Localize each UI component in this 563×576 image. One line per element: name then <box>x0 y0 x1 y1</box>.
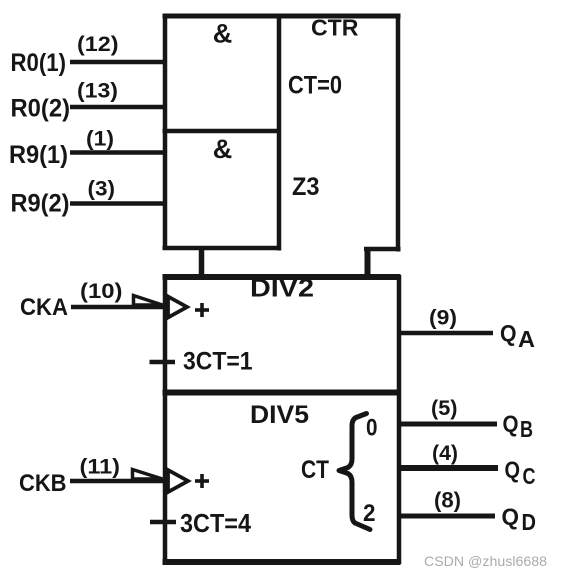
svg-text:Q: Q <box>503 411 519 437</box>
CT brace <box>339 414 370 530</box>
svg-text:3CT=1: 3CT=1 <box>183 348 253 376</box>
svg-text:(5): (5) <box>431 397 458 420</box>
svg-text:R9(1): R9(1) <box>9 141 68 169</box>
wire QC pin 4 <box>399 465 498 471</box>
svg-text:(3): (3) <box>88 178 116 201</box>
wire CKA pin 10 <box>71 305 166 310</box>
wire QB pin 5 <box>399 422 497 427</box>
wire R0(2) pin 13 <box>70 105 165 110</box>
dynamic input indicator CKA <box>168 297 187 318</box>
svg-text:CKA: CKA <box>20 294 68 321</box>
svg-text:A: A <box>518 326 535 352</box>
svg-text:&: & <box>213 134 233 164</box>
CT input tick 3CT=4 <box>150 520 176 525</box>
svg-text:(1): (1) <box>86 128 114 151</box>
counter block U1 outline CTR <box>163 14 401 252</box>
svg-text:(4): (4) <box>432 442 458 465</box>
svg-text:C: C <box>523 463 536 489</box>
wire R9(2) pin 3 <box>70 201 165 206</box>
dynamic input indicator CKB <box>168 470 188 492</box>
svg-text:2: 2 <box>363 500 376 527</box>
svg-text:(11): (11) <box>80 456 121 479</box>
svg-text:R9(2): R9(2) <box>11 190 70 218</box>
AND gate A1 box (common reset) <box>163 14 282 251</box>
flip-flop block DIV2/DIV5 outline <box>163 275 401 564</box>
svg-text:CT=0: CT=0 <box>288 72 342 100</box>
wire connector CTR to DIV2 left <box>199 248 205 278</box>
svg-text:DIV5: DIV5 <box>250 401 309 429</box>
wire connector CTR to DIV2 right <box>365 249 371 278</box>
svg-text:3CT=4: 3CT=4 <box>180 508 251 538</box>
polarity wedge CKB <box>133 470 163 480</box>
svg-text:R0(2): R0(2) <box>11 95 71 123</box>
wire QA pin 9 <box>399 331 493 336</box>
svg-text:Z3: Z3 <box>292 173 320 201</box>
svg-text:D: D <box>522 509 537 535</box>
svg-text:DIV2: DIV2 <box>250 275 314 303</box>
svg-text:CSDN @zhusl6688: CSDN @zhusl6688 <box>424 553 547 569</box>
svg-text:(10): (10) <box>80 280 123 303</box>
svg-text:CT: CT <box>301 456 329 484</box>
svg-text:B: B <box>520 416 533 442</box>
plus sign CKA <box>195 303 209 317</box>
svg-text:R0(1): R0(1) <box>11 49 67 77</box>
svg-text:CKB: CKB <box>19 470 67 497</box>
CT input tick 3CT=1 <box>150 360 176 365</box>
svg-text:Q: Q <box>502 504 520 530</box>
svg-text:Q: Q <box>500 320 517 346</box>
svg-text:Q: Q <box>505 457 521 483</box>
plus sign CKB <box>195 474 209 488</box>
polarity wedge CKA <box>134 296 163 306</box>
svg-text:(9): (9) <box>429 307 457 330</box>
svg-text:CTR: CTR <box>311 15 359 41</box>
wire R0(1) pin 12 <box>70 60 165 65</box>
svg-text:&: & <box>213 19 233 49</box>
wire R9(1) pin 1 <box>70 150 165 155</box>
wire CKB pin 11 <box>70 479 166 484</box>
svg-text:0: 0 <box>366 415 378 442</box>
wire QD pin 8 <box>399 514 495 519</box>
svg-text:(13): (13) <box>77 80 118 103</box>
svg-text:(8): (8) <box>434 488 461 513</box>
svg-text:(12): (12) <box>77 33 119 56</box>
